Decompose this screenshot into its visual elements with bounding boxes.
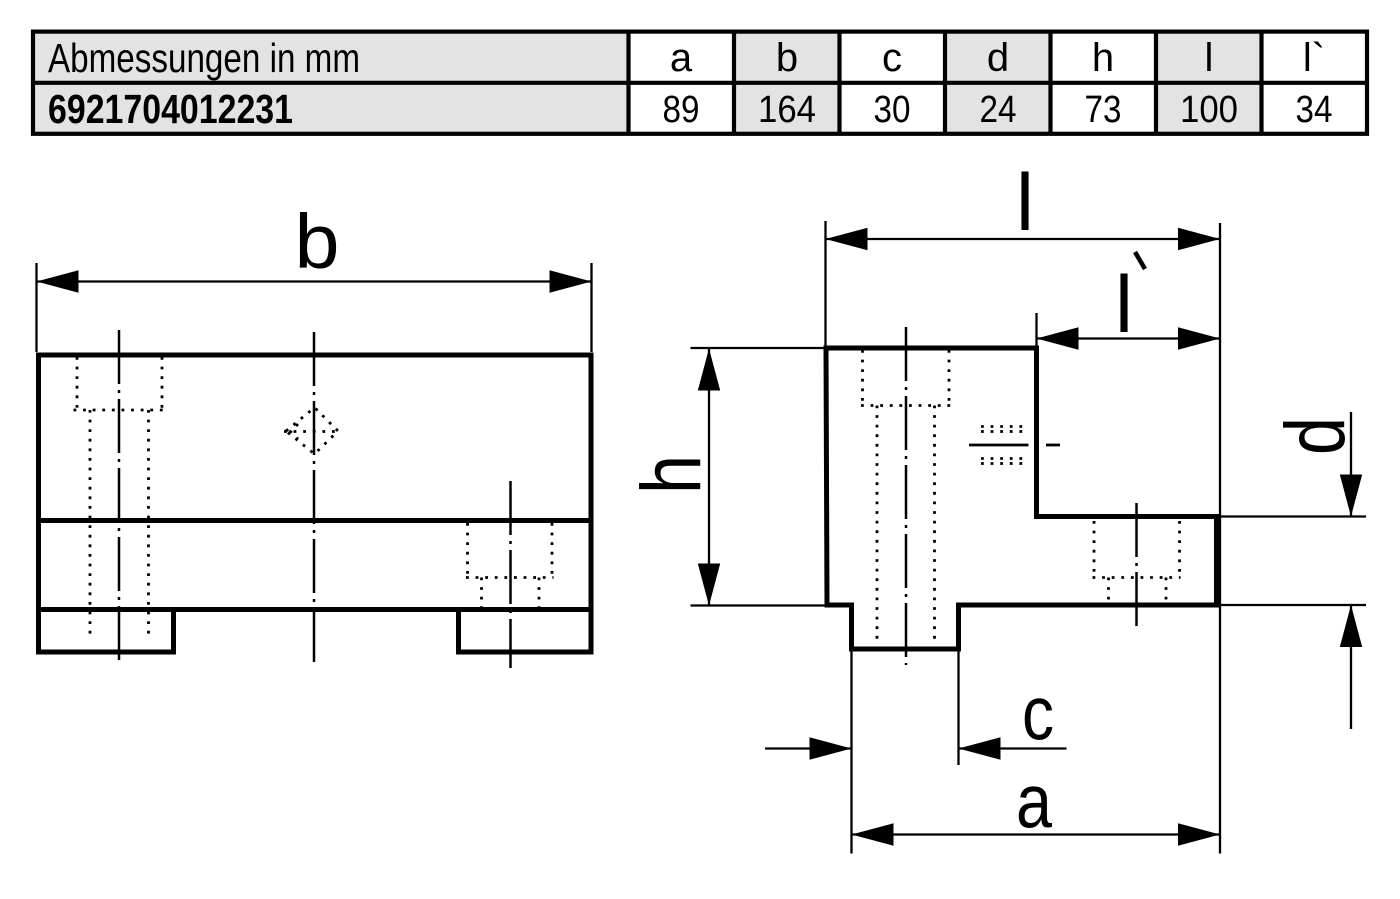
svg-text:h: h: [624, 455, 718, 494]
dimension d lower arrowhead (points up): [1340, 605, 1362, 647]
front view step line: [39, 518, 592, 523]
dimension a left arrowhead: [852, 823, 894, 845]
side left hole counterbore hidden lines: [861, 350, 951, 644]
front left hole centerline: [118, 330, 121, 666]
dimension l` left arrowhead: [1037, 327, 1079, 349]
dimension d line lower segment: [1350, 605, 1352, 729]
front center screw centerline: [313, 332, 316, 662]
side right hole counterbore hidden lines: [1093, 521, 1181, 605]
dimension d line upper segment: [1350, 412, 1352, 517]
svg-text:164: 164: [758, 89, 816, 131]
dimension c left line: [765, 747, 852, 749]
svg-text:b: b: [776, 36, 798, 80]
dimension h extension lines: [691, 348, 852, 606]
svg-text:34: 34: [1296, 89, 1333, 131]
svg-text:73: 73: [1085, 89, 1122, 131]
dimension l` label: [1115, 252, 1145, 350]
table row1 text: [48, 35, 1325, 81]
dimension l / a shared extension line right: [1219, 223, 1221, 854]
dimension h top arrowhead: [698, 349, 720, 391]
svg-text:c: c: [882, 36, 902, 80]
dimension b right arrowhead: [550, 270, 592, 292]
dimension h bottom arrowhead: [698, 564, 720, 606]
dimension c right line: [959, 747, 1067, 749]
dimension l right arrowhead: [1178, 228, 1220, 250]
svg-text:Abmessungen in mm: Abmessungen in mm: [48, 35, 360, 81]
dimension l extension line left: [824, 221, 826, 352]
dimension l left arrowhead: [826, 228, 868, 250]
svg-text:d: d: [1268, 417, 1362, 455]
front view outline: [39, 355, 592, 652]
svg-text:l: l: [1205, 36, 1214, 80]
svg-text:a: a: [670, 36, 693, 80]
table row2 text: [48, 86, 1333, 132]
side left hole centerline: [905, 327, 908, 665]
dimension l` extension line: [1035, 313, 1037, 352]
front right hole centerline: [509, 481, 512, 668]
front left hole counterbore hidden lines: [74, 357, 165, 640]
dimension h line: [708, 349, 710, 606]
dimension c extension lines: [852, 651, 959, 854]
dimension a right arrowhead: [1178, 823, 1220, 845]
dimension b line: [37, 280, 592, 282]
front center cone-screw hidden diamond: [284, 408, 339, 455]
table grey cell backgrounds: [33, 32, 1262, 134]
svg-text:d: d: [987, 36, 1009, 80]
dimension l line: [826, 238, 1221, 240]
side right hole centerline: [1135, 503, 1138, 627]
svg-text:24: 24: [980, 89, 1017, 131]
side cone screw centerline: [969, 444, 1060, 447]
svg-text:c: c: [1022, 672, 1054, 757]
front right hole counterbore hidden lines: [466, 523, 554, 609]
svg-text:l: l: [1115, 260, 1133, 350]
dimension d extension lines: [1217, 517, 1367, 606]
side cone screw hidden thread lines: [981, 427, 1029, 464]
side view outline: [826, 348, 1217, 649]
dimension l` line: [1037, 337, 1221, 339]
svg-text:l`: l`: [1303, 36, 1325, 80]
svg-text:30: 30: [874, 89, 911, 131]
dimension c right arrowhead (points left): [959, 737, 1001, 759]
dimension d upper arrowhead (points down): [1340, 475, 1362, 517]
svg-text:l: l: [1016, 158, 1034, 248]
svg-text:89: 89: [663, 89, 700, 131]
svg-text:h: h: [1092, 36, 1114, 80]
dimension l` right arrowhead: [1178, 327, 1220, 349]
table grid: [33, 32, 1367, 134]
svg-text:100: 100: [1180, 89, 1238, 131]
svg-text:b: b: [295, 199, 340, 285]
dimension b left arrowhead: [37, 270, 79, 292]
svg-text:a: a: [1016, 760, 1053, 845]
dimension b extension lines: [37, 263, 592, 352]
dimension c left arrowhead (points right): [810, 737, 852, 759]
front view bottom line: [39, 607, 592, 612]
dimension a line: [852, 833, 1221, 835]
svg-text:6921704012231: 6921704012231: [48, 86, 293, 132]
